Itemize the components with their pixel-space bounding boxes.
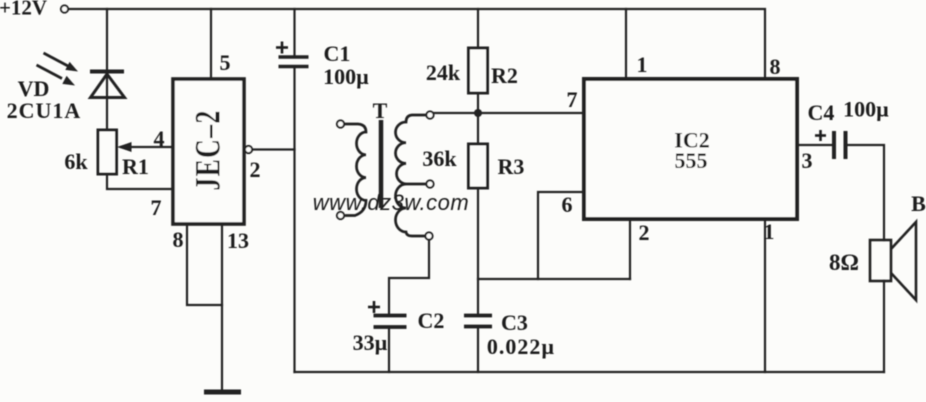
capacitor C1 100u bbox=[279, 57, 309, 67]
svg-text:R1: R1 bbox=[122, 154, 149, 179]
svg-text:C4: C4 bbox=[808, 100, 835, 125]
svg-text:B: B bbox=[911, 191, 926, 216]
wire R1 bottom to JEC-2 pin 7 bbox=[107, 174, 173, 189]
svg-text:C2: C2 bbox=[418, 308, 445, 333]
transformer terminals bbox=[337, 111, 434, 239]
wire R3 top bbox=[477, 113, 479, 144]
svg-text:24k: 24k bbox=[426, 60, 461, 85]
svg-text:C1: C1 bbox=[324, 41, 351, 66]
svg-text:2: 2 bbox=[250, 157, 261, 182]
capacitor C2 33u bbox=[374, 316, 407, 328]
svg-text:6: 6 bbox=[562, 192, 573, 217]
light arrows into VD bbox=[37, 53, 79, 86]
wire JEC-2 pin 8 bbox=[187, 224, 222, 305]
wire JEC-2 pin 5 to rail bbox=[210, 9, 212, 79]
plus C1 bbox=[276, 42, 288, 54]
wire top +12V rail bbox=[68, 9, 765, 79]
wire C1 bottom down to bottom rail bbox=[293, 67, 295, 372]
svg-text:8: 8 bbox=[770, 54, 781, 79]
svg-text:C3: C3 bbox=[501, 310, 528, 335]
wire JEC-2 pin 2 bbox=[252, 148, 295, 150]
wire IC2 pin 1 bottom to rail bbox=[764, 219, 766, 372]
secondary winding upper bbox=[396, 115, 427, 184]
svg-text:6k: 6k bbox=[64, 149, 88, 174]
svg-text:13: 13 bbox=[227, 228, 249, 253]
svg-text:36k: 36k bbox=[422, 146, 457, 171]
terminal T secondary bottom bbox=[425, 232, 432, 239]
core of T bbox=[379, 120, 384, 208]
wire R3 bottom to C3 bbox=[477, 188, 479, 314]
svg-text:100µ: 100µ bbox=[323, 64, 369, 89]
wire node R3/C3 to IC2 pin 2 bbox=[478, 278, 630, 280]
wire JEC-2 pin 13 to ground bbox=[221, 224, 223, 390]
svg-text:3: 3 bbox=[802, 148, 813, 173]
svg-text:T: T bbox=[373, 98, 388, 123]
svg-text:100µ: 100µ bbox=[843, 97, 889, 122]
plus C2 bbox=[368, 301, 380, 313]
svg-text:4: 4 bbox=[154, 126, 165, 151]
resistor R1 (6k) bbox=[98, 130, 117, 174]
terminal T primary top bbox=[337, 120, 344, 127]
wire IC2 pin 2 bbox=[629, 219, 631, 279]
block JEC-2 bbox=[173, 79, 244, 224]
node junction dot bbox=[474, 109, 482, 117]
svg-text:8Ω: 8Ω bbox=[829, 250, 859, 275]
wire diode branch from rail down to R1 bbox=[106, 9, 108, 130]
wire IC2 pin1 top to rail bbox=[625, 9, 627, 79]
terminal +12V bbox=[61, 5, 68, 12]
plus C4 bbox=[815, 130, 826, 141]
wire transformer secondary bottom to C2 bbox=[389, 240, 429, 314]
svg-text:2: 2 bbox=[639, 220, 650, 245]
secondary winding lower bbox=[396, 184, 426, 236]
svg-text:5: 5 bbox=[220, 50, 231, 75]
svg-text:+12V: +12V bbox=[0, 0, 47, 20]
wire C1 top bbox=[293, 9, 295, 56]
wire R2 bottom to node bbox=[477, 93, 479, 113]
primary winding bbox=[344, 124, 366, 216]
wire C2 bottom to rail bbox=[388, 329, 390, 372]
svg-text:555: 555 bbox=[675, 148, 708, 173]
capacitor C4 100u bbox=[834, 131, 846, 159]
wire node to IC2 pin 7 bbox=[432, 112, 584, 114]
photodiode VD 2CU1A bbox=[90, 72, 125, 98]
terminal T secondary top bbox=[426, 111, 433, 118]
resistor R3 (36k) bbox=[469, 144, 488, 188]
wire bottom rail bbox=[295, 371, 885, 373]
ground bbox=[204, 390, 241, 395]
capacitor C3 0.022u bbox=[464, 316, 492, 327]
transformer T bbox=[344, 115, 427, 236]
svg-text:1: 1 bbox=[764, 219, 775, 244]
speaker B bbox=[870, 240, 891, 281]
svg-text:1: 1 bbox=[637, 52, 648, 77]
terminal T primary bottom bbox=[337, 212, 344, 219]
svg-text:R2: R2 bbox=[491, 63, 518, 88]
svg-text:JEC–2: JEC–2 bbox=[187, 109, 227, 190]
pin 2 circle of JEC-2 bbox=[245, 146, 252, 153]
terminal T secondary tap bbox=[426, 180, 433, 187]
wire JEC-2 pin 4 bbox=[121, 146, 173, 148]
svg-text:7: 7 bbox=[567, 87, 578, 112]
resistor R2 (24k) bbox=[469, 48, 488, 93]
wire IC2 pin 3 to C4 bbox=[797, 144, 831, 146]
wire C3 bottom to rail bbox=[477, 328, 479, 372]
IC2 555 bbox=[584, 79, 797, 219]
svg-text:7: 7 bbox=[151, 195, 162, 220]
wire C4 to speaker bbox=[848, 145, 884, 240]
svg-text:www.dz3w.com: www.dz3w.com bbox=[313, 190, 469, 215]
svg-text:2CU1A: 2CU1A bbox=[7, 98, 82, 123]
wire IC2 pin 6 bbox=[538, 192, 584, 279]
svg-text:33µ: 33µ bbox=[353, 330, 388, 355]
wire speaker bottom to rail bbox=[883, 281, 885, 372]
wire R2 top to rail bbox=[477, 9, 479, 48]
svg-text:8: 8 bbox=[173, 227, 184, 252]
arrow into R1 (pin 4 wiper) bbox=[117, 142, 132, 152]
svg-text:R3: R3 bbox=[498, 154, 525, 179]
svg-text:0.022µ: 0.022µ bbox=[487, 334, 555, 359]
